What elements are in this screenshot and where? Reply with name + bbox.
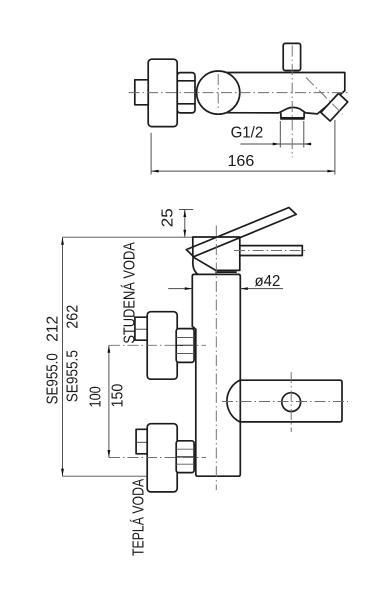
- hot wall stub: [136, 429, 149, 454]
- housing left fillet: [193, 258, 198, 275]
- escutcheon: [148, 59, 177, 126]
- connection nut: [177, 73, 195, 113]
- svg-text:ø42: ø42: [255, 273, 281, 290]
- body vertical centerline: [215, 226, 217, 491]
- hot nut: [176, 441, 194, 473]
- dia 42 dimension: [168, 288, 283, 290]
- 100/150 dimension line: [108, 345, 110, 457]
- svg-text:STUDENÁ VODA: STUDENÁ VODA: [120, 242, 139, 344]
- housing cap ring: [216, 271, 236, 273]
- svg-text:SE955.5: SE955.5: [65, 350, 82, 402]
- wall union stub: [135, 80, 148, 105]
- diverter circle: [282, 393, 301, 412]
- cold wall stub: [135, 317, 148, 340]
- svg-text:166: 166: [228, 153, 255, 170]
- svg-text:TEPLÁ VODA: TEPLÁ VODA: [129, 479, 148, 556]
- diverter vertical centerline: [290, 372, 292, 432]
- spout left cap arc: [227, 380, 240, 422]
- lever blade: [186, 208, 296, 257]
- diverter knob: [283, 43, 300, 70]
- svg-text:212: 212: [45, 316, 62, 342]
- svg-text:100: 100: [87, 386, 104, 407]
- hot escutcheon: [147, 424, 177, 492]
- G1/2 extension lines: [280, 121, 304, 148]
- 212/262 dimension line: [62, 237, 64, 476]
- hot centerline: [109, 457, 206, 459]
- ball vertical center mark: [217, 74, 219, 111]
- lever rod: [240, 246, 302, 256]
- spout horizontal centerline: [222, 401, 348, 403]
- svg-text:G1/2: G1/2: [231, 125, 264, 142]
- lever top reference tick: [179, 209, 193, 211]
- 166 extension lines: [151, 120, 335, 175]
- svg-text:25: 25: [159, 208, 176, 227]
- 45deg spout centerline: [306, 78, 343, 115]
- svg-text:262: 262: [65, 305, 82, 329]
- reference line at housing top (212 top / 25 bottom): [63, 236, 193, 238]
- main horizontal centerline: [129, 92, 349, 94]
- spout (front): [240, 380, 342, 422]
- shower outlet stub sides: [281, 113, 304, 117]
- G1/2 dimension line: [240, 143, 310, 145]
- svg-text:SE955.0: SE955.0: [45, 353, 62, 404]
- 166 arrowheads: [151, 170, 159, 173]
- shower outlet centerline: [291, 46, 293, 158]
- cold escutcheon: [147, 312, 177, 380]
- shower outlet face (thick): [280, 117, 304, 120]
- cartridge housing: [193, 237, 240, 270]
- cold centerline: [109, 344, 206, 346]
- mixer body tube: [215, 73, 345, 114]
- 166 dimension line: [151, 170, 335, 172]
- 25 dimension line: [184, 210, 186, 238]
- cold nut: [176, 329, 194, 363]
- svg-text:150: 150: [109, 384, 126, 408]
- ball joint: [197, 71, 240, 114]
- 45deg spout stub: [321, 93, 348, 121]
- body cylinder: [192, 274, 240, 476]
- rod centerline: [234, 250, 306, 252]
- body bottom extension line: [63, 475, 148, 477]
- G1/2 arrowheads: [273, 143, 281, 146]
